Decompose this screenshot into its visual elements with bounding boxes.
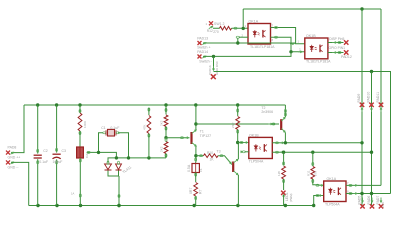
junction bottom rail end: [312, 204, 315, 207]
label R1 vertical: [83, 120, 87, 128]
label R9 vertical: [277, 171, 281, 176]
pad LED1 PWM: [281, 191, 285, 198]
wire OK1B pin8 out: [328, 52, 344, 54]
svg-text:D10: D10: [381, 202, 385, 208]
label T2: [261, 106, 265, 110]
pad PAD11 top row: [376, 92, 383, 112]
label PAD14: [197, 50, 208, 54]
svg-text:OK1B: OK1B: [249, 134, 259, 138]
wire vertical net x381: [380, 9, 382, 105]
svg-text:C1: C1: [101, 126, 106, 130]
svg-text:270: 270: [313, 171, 317, 176]
transistor T2 2n3906: [281, 117, 285, 132]
label T3: [217, 150, 221, 154]
label R12 270: [207, 29, 219, 34]
resistor R5: [164, 105, 168, 138]
svg-text:PAD5: PAD5: [358, 196, 362, 205]
wire GND net long: [214, 72, 391, 194]
wire OK1A pin2 stub: [236, 33, 248, 43]
pad PAD6 bottom row: [367, 196, 374, 209]
wire OK1B pin7 out: [328, 42, 344, 44]
wire vertical net x371: [371, 72, 373, 206]
svg-text:PAD11: PAD11: [376, 92, 380, 103]
wire T1 collector to T2 base: [196, 123, 279, 125]
junction net x371 y152: [370, 151, 373, 154]
junction PAD14 net pin2 OK1B: [289, 50, 292, 53]
svg-text:100uF: 100uF: [53, 160, 63, 164]
junction T1 emitter R10: [194, 154, 197, 157]
optocoupler U3 OK2A: [324, 181, 346, 202]
svg-text:47K: 47K: [142, 124, 146, 130]
wire OK2A pin8 net: [346, 189, 391, 194]
junction bottom rail TL431: [117, 204, 120, 207]
label right of PAD7: [381, 202, 385, 208]
label 2n3906: [261, 110, 273, 114]
resistor R8: [236, 105, 240, 143]
svg-text:C3: C3: [62, 149, 67, 153]
resistor R12: [220, 26, 232, 30]
junction rail T1: [194, 103, 197, 106]
pad PAD13 Switch+: [197, 36, 208, 45]
svg-text:(PWM): (PWM): [289, 194, 293, 202]
wire LED1 to rail: [283, 195, 285, 206]
wire OK1A pin7 to OK1B pin1: [271, 24, 305, 45]
junction rail R5: [164, 103, 167, 106]
junction R5 R6 divider: [164, 136, 167, 139]
label C1: [101, 126, 106, 130]
label C3 value: [53, 160, 63, 164]
pad PAD10 top row: [367, 92, 374, 112]
wire OK1A pin8 to OK1B pin2: [271, 36, 305, 53]
label R8 vertical: [231, 122, 235, 128]
svg-text:PAD12: PAD12: [341, 55, 352, 59]
fuse F1: [192, 158, 199, 182]
switch SW1 pin symbol: [209, 26, 213, 28]
svg-text:OK1A: OK1A: [249, 20, 259, 24]
junction T1 collector base-wire: [194, 122, 197, 125]
transistor T3: [233, 159, 238, 175]
svg-text:F1: F1: [199, 168, 203, 172]
capacitor C2: [34, 105, 42, 206]
pad PAD7 bottom row: [376, 196, 383, 209]
pin 1 label OK1A: [245, 24, 247, 28]
label TL181TLP181A: [250, 45, 275, 49]
svg-text:2n3906: 2n3906: [261, 110, 273, 114]
resistor R9: [282, 152, 286, 190]
wire horizontal mid node: [108, 158, 166, 163]
wire T3 collector: [237, 143, 239, 160]
resistor R10 1K: [204, 154, 219, 158]
junction bottom rail x80.5: [79, 204, 82, 207]
svg-text:0R7: 0R7: [189, 188, 193, 194]
wire OK2B pin7 net: [272, 142, 362, 144]
junction bottom rail x57: [55, 204, 58, 207]
svg-text:0.1uF: 0.1uF: [39, 160, 48, 164]
svg-text:TL181TLP181A: TL181TLP181A: [306, 59, 331, 63]
svg-text:Switch -: Switch -: [199, 59, 212, 63]
svg-text:PAD14: PAD14: [197, 50, 208, 54]
junction switch- branch: [212, 55, 215, 58]
svg-text:TLP504A: TLP504A: [249, 159, 264, 163]
svg-text:PAD13: PAD13: [197, 36, 208, 40]
junction pin8 net x371: [370, 192, 373, 195]
wire node under C1: [87, 151, 116, 158]
wire TL431 to rail: [108, 171, 120, 206]
label PAD16 vertical: [208, 65, 212, 75]
svg-text:GND DS0: GND DS0: [215, 61, 219, 75]
pad PAD5 bottom row: [358, 196, 365, 209]
label T1: [200, 130, 204, 134]
diode D2 TL431: [116, 161, 122, 170]
wire R12 to opto OK1A pin1: [213, 27, 248, 29]
resistor R7: [194, 183, 198, 206]
svg-text:R7: R7: [198, 189, 202, 194]
label F1 vertical: [187, 164, 203, 172]
label TLP504A U3: [325, 202, 340, 206]
label OK1B: [306, 34, 316, 38]
wire vertical net x362 lower: [361, 105, 363, 205]
junction mid node vert116: [115, 156, 118, 159]
wire T1 collector: [195, 105, 197, 130]
svg-text:PAD9: PAD9: [357, 94, 361, 103]
wire PAD14 net horizontal: [203, 52, 291, 57]
label TL181TLP181A U2: [306, 59, 331, 63]
wire OK2A pin7 net: [346, 181, 381, 186]
resistor R4: [147, 108, 151, 158]
junction rail R1: [78, 103, 81, 106]
junction T2 collector net: [284, 141, 287, 144]
label Switch +: [197, 46, 210, 50]
label C1 value: [110, 126, 119, 130]
wire T2 collector down: [284, 133, 286, 143]
junction rail C2: [36, 103, 39, 106]
wire GND branch down: [213, 56, 215, 70]
svg-text:PAD10: PAD10: [367, 92, 371, 103]
svg-text:TLP504A: TLP504A: [325, 202, 340, 206]
svg-text:T1: T1: [200, 130, 204, 134]
pad GPIO pin1: [329, 46, 349, 55]
wire top rail VCC: [24, 104, 285, 106]
svg-text:PAD6: PAD6: [367, 196, 371, 205]
junction net x362 y143: [360, 141, 363, 144]
junction mid node crystal right: [127, 156, 130, 159]
svg-text:TIP127: TIP127: [200, 134, 211, 138]
optocoupler U1 OK1A: [248, 24, 271, 45]
svg-text:0.5A: 0.5A: [187, 164, 191, 172]
label C2 value: [39, 160, 48, 164]
junction bottom rail x194.2: [193, 204, 196, 207]
junction bottom rail x119: [117, 204, 120, 207]
junction bottom rail x285.4: [284, 204, 287, 207]
wire top 5V net: [243, 9, 381, 28]
junction GND net x371: [370, 70, 373, 73]
label OK1A: [249, 20, 259, 24]
label PAD12: [341, 55, 352, 59]
label TLP504A U4: [249, 159, 264, 163]
svg-text:OK1B: OK1B: [306, 34, 316, 38]
junction node pin1 OK1A: [242, 27, 245, 30]
label Switch -: [199, 59, 212, 63]
wire T2 emitter to rail: [284, 105, 286, 117]
wire R10 to T3 base: [218, 155, 232, 165]
pad GND minus: [6, 160, 14, 164]
junction R8 opto pin1: [236, 141, 239, 144]
svg-text:R11: R11: [306, 170, 310, 176]
wire vertical net x362: [361, 9, 363, 105]
svg-text:270: 270: [213, 30, 219, 34]
junction under C1 left: [97, 151, 100, 154]
label R10: [207, 151, 213, 155]
crystal C1 box: [99, 129, 129, 158]
label TIP127: [200, 134, 211, 138]
svg-text:PAD7: PAD7: [376, 196, 380, 205]
wire R11 to OK2A pin1: [316, 184, 324, 186]
junction R9 tap: [282, 151, 285, 154]
svg-text:R12: R12: [207, 29, 213, 33]
diode D1 TL431: [105, 161, 112, 170]
label R6 vertical: [159, 146, 163, 152]
svg-text:SW1 2: SW1 2: [214, 22, 225, 26]
capacitor C3 polarized: [53, 105, 61, 206]
label R4 vertical: [142, 124, 146, 130]
label near bottom pin: [71, 192, 74, 196]
pad GND DS0: [211, 74, 216, 79]
label C2: [43, 149, 48, 153]
trimmer R13 box: [77, 147, 84, 158]
junction R11 tap: [311, 151, 314, 154]
pad DISP pin5: [329, 37, 348, 45]
junction rail C3: [55, 103, 58, 106]
optocoupler U2 OK1B: [305, 38, 328, 59]
label C3: [62, 149, 67, 153]
wire bottom rail: [29, 205, 314, 207]
svg-text:DISP Pin5: DISP Pin5: [329, 37, 344, 41]
resistor R1: [78, 105, 82, 147]
wire OK2B pin2 stub: [241, 151, 249, 153]
wire T3 emitter to rail: [237, 175, 239, 206]
wire GND pad to bottom rail: [11, 162, 29, 205]
junction rail R8: [236, 103, 239, 106]
svg-text:2K2: 2K2: [159, 146, 163, 152]
resistor R11: [311, 152, 316, 185]
svg-text:C2: C2: [43, 149, 48, 153]
pad PAD14 Switch-: [198, 55, 206, 59]
pad PAD8: [6, 145, 16, 154]
wire OK2B pin8 net: [272, 151, 371, 153]
label OK2A: [327, 177, 337, 181]
label TL431: [122, 165, 132, 174]
svg-text:1A: 1A: [71, 192, 74, 196]
junction PAD13 net pin2: [236, 41, 239, 44]
wire vertical net x381 lower: [380, 105, 382, 186]
wire divider to T1 base: [166, 137, 190, 139]
svg-text:T3: T3: [217, 150, 221, 154]
pad PAD9 top row: [357, 94, 364, 112]
resistor R6: [164, 138, 168, 158]
label GND plus: [8, 156, 21, 160]
svg-text:0.1uF: 0.1uF: [110, 126, 119, 130]
svg-text:GPIO PIN1: GPIO PIN1: [329, 46, 346, 50]
wire R8 T3 to OK2B pin1: [238, 142, 249, 144]
label R5 vertical: [159, 120, 163, 126]
svg-text:GND ++: GND ++: [8, 156, 21, 160]
wire left rail: [11, 105, 24, 153]
junction bottom rail x38: [36, 204, 39, 207]
junction mid node R4 bottom: [147, 156, 150, 159]
wire T1 emitter down: [195, 147, 197, 163]
label R13 vertical: [85, 152, 89, 158]
label R11 vertical: [306, 170, 317, 176]
svg-text:OK1A: OK1A: [327, 177, 337, 181]
junction top wire at v362: [360, 7, 363, 10]
svg-text:2K2: 2K2: [231, 122, 235, 128]
wire PAD13 net: [203, 42, 296, 44]
junction bottom rail x237.9: [236, 204, 239, 207]
label LED1 vertical: [285, 192, 293, 202]
svg-text:100K: 100K: [83, 120, 87, 128]
transistor T1 TIP127: [192, 130, 197, 146]
label GND minus: [8, 165, 20, 169]
svg-text:2K2: 2K2: [159, 120, 163, 126]
svg-text:PAD16: PAD16: [208, 65, 212, 75]
svg-text:TL181TLP181A: TL181TLP181A: [250, 45, 275, 49]
label 1K: [210, 158, 215, 162]
wire to R10: [196, 155, 204, 157]
label GND DS0 vertical: [215, 61, 219, 75]
svg-text:120: 120: [277, 171, 281, 176]
svg-text:GND --: GND --: [8, 165, 20, 169]
label R7 vertical: [189, 188, 202, 194]
wire R13 to rail: [79, 158, 81, 206]
svg-text:PAD8: PAD8: [8, 145, 17, 149]
label OK2B: [249, 134, 259, 138]
wire OK2A pin2 to rail: [314, 195, 324, 206]
switch SW1 pin pad 5V: [206, 21, 225, 26]
optocoupler U4 OK2B: [249, 137, 272, 158]
svg-text:LED1: LED1: [285, 192, 289, 201]
junction pin8 net x362: [360, 192, 363, 195]
